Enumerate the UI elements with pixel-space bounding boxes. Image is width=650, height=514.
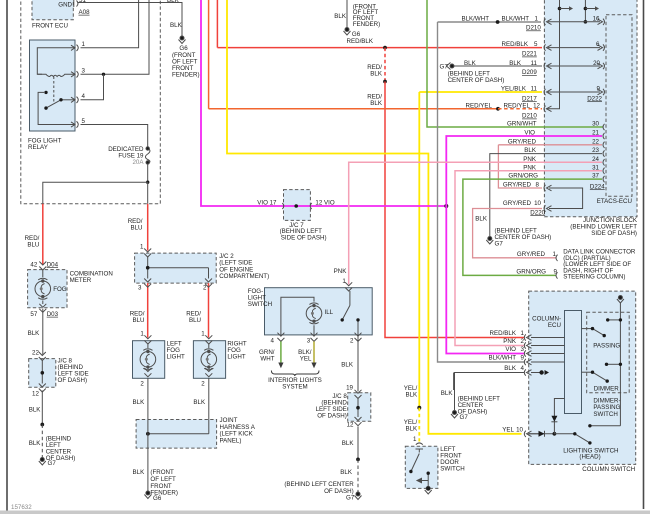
- svg-text:19: 19: [346, 385, 353, 392]
- svg-text:LIGHT: LIGHT: [167, 353, 185, 360]
- svg-text:5: 5: [82, 118, 86, 125]
- svg-text:BLU: BLU: [130, 225, 142, 232]
- svg-text:COLUMN SWITCH: COLUMN SWITCH: [582, 466, 635, 473]
- svg-text:G6: G6: [179, 45, 188, 52]
- wire GRY/RED pin 22 row: [498, 144, 602, 146]
- wire BLK column ECU pin 4 to ground G7 door area: [455, 373, 525, 412]
- outer dashed box front ECU / fog light relay compartment: [21, 0, 161, 204]
- svg-text:G6: G6: [153, 495, 162, 502]
- node J/C8 left dot: [41, 371, 45, 375]
- node riser 2 top: [584, 7, 588, 11]
- J/C2 pin 2 arrow: [205, 279, 212, 288]
- svg-text:G7: G7: [346, 495, 355, 502]
- node VIO junction: [444, 204, 448, 208]
- node splice RED/BLK: [383, 46, 387, 50]
- combination meter box: [28, 270, 67, 308]
- pin bracket front ECU GND pin 51: [74, 0, 78, 7]
- svg-text:4: 4: [521, 365, 525, 372]
- svg-text:GRY/RED: GRY/RED: [503, 182, 532, 189]
- wire BLK left fog light pin 2: [147, 378, 149, 419]
- fog switch internals: ILL lamp: [306, 303, 322, 324]
- svg-text:42: 42: [30, 261, 37, 268]
- svg-text:WHT: WHT: [260, 355, 274, 362]
- wire BLK drop beside door switch from top: [453, 373, 455, 391]
- J/C2 pin 1 arrow: [144, 249, 151, 258]
- joint harness A (left kick panel) box: [136, 420, 217, 449]
- svg-text:20: 20: [593, 60, 600, 67]
- svg-text:D220: D220: [530, 209, 545, 216]
- wire BLK G7 row to junction pin 11: [454, 65, 542, 67]
- svg-text:16: 16: [593, 15, 600, 22]
- svg-text:1: 1: [140, 243, 144, 250]
- svg-text:22: 22: [592, 138, 599, 145]
- ground under left front door switch: [425, 486, 432, 494]
- svg-text:BLK: BLK: [504, 365, 517, 372]
- wire RED/YEL vertical from top: [208, 0, 210, 109]
- node splice BLK/WHT: [496, 20, 500, 24]
- wire dimmer switch feed: [582, 371, 593, 373]
- wire PNK pin 24 to fog switch pin 1: [349, 162, 602, 284]
- passing switch contacts: [593, 329, 605, 336]
- fog-light switch box: [265, 288, 373, 335]
- wire YEL/BLK vertical: [418, 92, 420, 408]
- svg-text:2: 2: [140, 380, 144, 387]
- wire GRN/ORG pin 37 to DLC pin 9: [463, 179, 602, 275]
- wire YEL/BLK junction pin 11 row: [419, 91, 542, 93]
- ground G6 front of left front fender top-left: [179, 36, 186, 44]
- fuse 19 symbol: [145, 147, 150, 164]
- wire PNK pin 31 to column ECU pin 2: [455, 171, 602, 346]
- wire dark segment to J/C2: [147, 182, 149, 204]
- svg-text:BLK: BLK: [29, 440, 42, 447]
- svg-text:22: 22: [32, 349, 39, 356]
- wire YEL vertical from top: [227, 0, 522, 434]
- J/C 2 box (left side of engine compartment): [135, 253, 217, 283]
- svg-text:SIDE OF DASH): SIDE OF DASH): [281, 234, 327, 241]
- svg-text:ECU: ECU: [548, 322, 561, 329]
- svg-text:12: 12: [32, 391, 39, 398]
- svg-text:OF DASH): OF DASH): [317, 412, 347, 419]
- wire junction block internal riser 1: [546, 0, 560, 109]
- wire riser 2 top arrow: [585, 8, 596, 10]
- J/C2 internals: [148, 257, 209, 279]
- svg-text:GRN/ORG: GRN/ORG: [516, 269, 546, 276]
- wire GRY/RED drop 22 to 8: [498, 145, 542, 188]
- wire VIO riser to junction block pin 21: [446, 136, 602, 207]
- wire lighting switch contact row: [590, 425, 621, 427]
- svg-text:SWITCH: SWITCH: [248, 301, 272, 308]
- svg-text:1: 1: [82, 41, 86, 48]
- svg-text:PNK: PNK: [503, 338, 517, 345]
- wire relay pin 5 to dedicated fuse 19: [81, 125, 148, 149]
- wire BLK/WHT row to junction pin 1: [438, 21, 542, 23]
- svg-text:BLK/WHT: BLK/WHT: [461, 15, 489, 22]
- wire RED/BLK dashed drop: [384, 48, 386, 82]
- wire BLK fog switch pin 2 to J/C8 pin 19: [357, 335, 359, 392]
- svg-text:PASSING: PASSING: [593, 343, 620, 350]
- wire RED/YEL row to splice: [209, 108, 498, 110]
- svg-text:FENDER): FENDER): [172, 72, 200, 79]
- svg-text:G7: G7: [48, 460, 57, 467]
- DLC pin brackets: [556, 255, 558, 279]
- svg-text:9: 9: [597, 86, 601, 93]
- svg-text:PANEL): PANEL): [220, 437, 242, 444]
- wire BLK front ECU GND pin 51 to ground G6: [78, 3, 182, 37]
- svg-text:51: 51: [79, 0, 86, 4]
- wire BLK/WHT drop to column ECU pin 9: [438, 22, 525, 362]
- wire YEL/BLK dashed to door switch pin 1: [418, 408, 420, 442]
- node lighting switch splice: [553, 432, 557, 436]
- junction block left edge pin brackets with arrows: [544, 19, 552, 212]
- wire column ECU pin rows to ECU: [531, 337, 565, 339]
- svg-text:1: 1: [201, 330, 205, 337]
- svg-text:BLK: BLK: [133, 469, 146, 476]
- front ECU box: [32, 0, 73, 20]
- svg-text:GRN/WHT: GRN/WHT: [507, 121, 537, 128]
- svg-text:1: 1: [535, 15, 539, 22]
- node splice center BLK: [356, 458, 360, 462]
- svg-text:ETACS-ECU: ETACS-ECU: [597, 198, 632, 205]
- svg-text:2: 2: [350, 337, 354, 344]
- diode vertical in lighting switch: [551, 416, 557, 422]
- left fog light box: [133, 341, 165, 379]
- wire RED/BLU to combination meter pin 42: [42, 204, 44, 265]
- svg-text:GRY/RED: GRY/RED: [503, 200, 532, 207]
- ground G7 behind left center of dash (junction area): [486, 237, 493, 245]
- svg-text:BLU: BLU: [189, 317, 201, 324]
- fog switch bottom pin arrows 4 3 2: [277, 333, 361, 342]
- svg-text:BLK: BLK: [193, 399, 206, 406]
- column switch pin brackets: [524, 334, 531, 437]
- svg-text:BLK: BLK: [405, 426, 418, 433]
- svg-text:D04: D04: [47, 261, 59, 268]
- svg-text:4: 4: [82, 93, 86, 100]
- svg-text:30: 30: [592, 121, 599, 128]
- wire lighting switch riser with diode: [554, 399, 564, 434]
- svg-text:8: 8: [536, 182, 540, 189]
- node pin3/pin4 junction: [102, 73, 105, 76]
- svg-text:G7: G7: [460, 414, 469, 421]
- svg-text:RED/BLK: RED/BLK: [347, 38, 374, 45]
- svg-text:BLK: BLK: [340, 469, 353, 476]
- wire GRY/RED pin 10 to DLC pin 1: [473, 209, 556, 258]
- wire GRN/WHT from top to junction pin 30: [427, 0, 603, 127]
- pin 57 arrow out of combination meter: [39, 304, 46, 313]
- wire junction row pin1 to 16: [548, 21, 600, 23]
- wire relay pin 4: [81, 74, 104, 100]
- svg-text:4: 4: [271, 337, 275, 344]
- svg-text:12: 12: [347, 422, 354, 429]
- wire RED/BLU to J/C 2 pin 1: [147, 204, 149, 251]
- svg-text:BLK: BLK: [334, 13, 347, 20]
- svg-text:DIMMER: DIMMER: [594, 386, 620, 393]
- svg-text:G6: G6: [352, 31, 361, 38]
- wire RED/BLK row to junction block pin 5: [217, 47, 542, 49]
- fuse F19 below: [147, 162, 149, 182]
- svg-text:BLK: BLK: [133, 399, 146, 406]
- wire YEL10 internal from bracket to splice: [529, 433, 554, 435]
- wire junction row pin5 to 6: [548, 47, 600, 49]
- ground G6 bottom fog light: [144, 491, 151, 499]
- svg-text:9: 9: [521, 355, 525, 362]
- fog switch pin 1 arrow: [345, 282, 352, 291]
- svg-text:FRONT ECU: FRONT ECU: [32, 22, 68, 29]
- svg-text:(HEAD): (HEAD): [579, 454, 600, 461]
- svg-text:RED/YEL: RED/YEL: [466, 102, 493, 109]
- BLK/YEL stub to interior lights: [313, 341, 315, 362]
- column-ECU box: [565, 311, 582, 414]
- svg-text:SWITCH: SWITCH: [440, 466, 464, 473]
- svg-text:ILL: ILL: [325, 309, 334, 316]
- left front door switch box: [405, 446, 438, 488]
- wire RED/BLU J/C2 pin 2 to right fog light: [208, 283, 210, 337]
- svg-text:D210: D210: [522, 113, 537, 120]
- column switch box: [529, 291, 636, 464]
- svg-text:GRY/RED: GRY/RED: [508, 138, 537, 145]
- svg-text:LIGHT: LIGHT: [227, 353, 245, 360]
- svg-text:GRY/RED: GRY/RED: [517, 251, 546, 258]
- svg-text:BLK: BLK: [464, 60, 477, 67]
- node splice: [40, 423, 44, 427]
- svg-text:1: 1: [553, 251, 557, 258]
- svg-text:CENTER OF DASH): CENTER OF DASH): [448, 77, 505, 84]
- svg-text:BLK/WHT: BLK/WHT: [501, 15, 529, 22]
- svg-text:VIO: VIO: [505, 346, 516, 353]
- svg-text:D03: D03: [47, 311, 59, 318]
- door switch pin 1 bracket: [416, 443, 423, 445]
- ground G7 sideways at BLK 11 row: [447, 63, 455, 70]
- wire junction block internal riser 2: [584, 0, 586, 22]
- wire BLK pin 23 to ground G7: [490, 154, 602, 237]
- svg-text:RELAY: RELAY: [28, 144, 48, 151]
- svg-text:CENTER OF DASH): CENTER OF DASH): [495, 234, 552, 241]
- svg-text:12 VIO: 12 VIO: [315, 200, 334, 207]
- wire relay pin 1: [81, 0, 139, 48]
- svg-text:BLU: BLU: [132, 317, 144, 324]
- node fuse output junction: [146, 181, 149, 184]
- brace interior lights system: [271, 371, 319, 377]
- J/C7 brackets and dot: [282, 203, 311, 209]
- svg-text:6: 6: [596, 41, 600, 48]
- node splice RED/YEL: [496, 107, 500, 111]
- combination meter fog lamp: [35, 278, 51, 299]
- svg-text:3: 3: [82, 68, 86, 75]
- svg-text:FENDER): FENDER): [353, 21, 381, 28]
- svg-text:2: 2: [201, 380, 205, 387]
- svg-text:VIO: VIO: [524, 130, 535, 137]
- wire RED/YEL dashed to junction block pin 12: [498, 108, 542, 110]
- wire BLK J/C8 pin 12 down: [357, 427, 359, 460]
- wire J/C8 pin 12 BLK down: [41, 391, 43, 425]
- ETACS-ECU: [606, 15, 632, 197]
- svg-text:2: 2: [521, 338, 525, 345]
- J/C 8 box (behind left side of dash, left): [29, 359, 56, 388]
- svg-text:GND: GND: [58, 1, 72, 8]
- wire to combination meter branch: [43, 182, 148, 204]
- svg-text:24: 24: [592, 156, 599, 163]
- svg-text:BLK: BLK: [405, 392, 418, 399]
- BLK 4 arrow chevron: [545, 370, 550, 375]
- wire junction pins 8-10 U link: [549, 188, 583, 209]
- pin 1 relay bracket: [71, 45, 78, 51]
- wire dimmer fixed contact to ground rail: [607, 363, 621, 365]
- svg-text:SWITCH: SWITCH: [593, 411, 617, 418]
- wire BLK right fog light pin 2: [208, 378, 210, 434]
- wire ground rail in column switch: [619, 303, 621, 426]
- wire BLK dashed to center ground G7: [357, 459, 359, 492]
- door switch internals: [411, 449, 428, 488]
- svg-text:BLK: BLK: [524, 147, 537, 154]
- pin 3 relay bracket: [71, 71, 78, 77]
- svg-text:BLK: BLK: [170, 22, 183, 29]
- svg-text:G7: G7: [440, 63, 449, 70]
- GRN/WHT stub to interior lights: [280, 341, 282, 362]
- wire RED/BLK down to column ECU pin 1: [385, 82, 524, 338]
- ETACS edge brackets colored rows: [603, 124, 605, 183]
- ground G6 front of left front fender second top: [344, 28, 351, 36]
- svg-text:12: 12: [533, 102, 540, 109]
- svg-text:PNK: PNK: [334, 268, 348, 275]
- svg-text:RED/BLK: RED/BLK: [490, 330, 517, 337]
- svg-text:11: 11: [531, 86, 538, 93]
- wire RED/BLK vertical from top: [216, 0, 218, 48]
- wire lighting switch to movable contact: [554, 433, 574, 435]
- svg-text:FOG: FOG: [53, 286, 67, 293]
- svg-text:3: 3: [307, 337, 311, 344]
- svg-text:BLK: BLK: [29, 407, 42, 414]
- svg-text:1: 1: [342, 278, 346, 285]
- svg-text:BLK: BLK: [342, 440, 355, 447]
- svg-text:10: 10: [516, 426, 523, 433]
- svg-text:YEL: YEL: [502, 426, 514, 433]
- svg-text:METER: METER: [70, 277, 92, 284]
- pin 4 relay bracket: [71, 97, 78, 103]
- J/C8 left arrows: [39, 352, 46, 392]
- svg-text:VIO 17: VIO 17: [257, 200, 277, 207]
- diode at YEL 10: [539, 431, 545, 437]
- svg-text:10: 10: [534, 200, 541, 207]
- svg-text:YEL: YEL: [300, 355, 312, 362]
- ground G7 center lower: [355, 492, 362, 500]
- left fog light pin 1 arrow and bulb: [144, 335, 151, 377]
- node riser 2 joins row 1-16: [584, 20, 588, 24]
- svg-text:BLK: BLK: [28, 330, 41, 337]
- svg-text:D222: D222: [587, 95, 602, 102]
- fog switch contacts: [342, 291, 358, 335]
- node riser 1 top: [558, 7, 562, 11]
- svg-text:PNK: PNK: [523, 156, 537, 163]
- dimmer switch contacts: [593, 372, 608, 381]
- wire BLK combination meter pin 57 to pin 22: [42, 309, 44, 356]
- relay coil and contacts: [37, 48, 75, 125]
- svg-text:9: 9: [554, 269, 558, 276]
- svg-text:BLK: BLK: [441, 390, 454, 397]
- svg-text:5: 5: [534, 41, 538, 48]
- svg-text:RED/BLK: RED/BLK: [502, 41, 529, 48]
- svg-text:BLK: BLK: [475, 216, 488, 223]
- pin 42 arrow into combination meter: [39, 262, 46, 271]
- J/C2 pin 3 arrow: [144, 279, 151, 288]
- node splice YEL/BLK: [417, 406, 421, 410]
- node BLK 4 dot: [539, 370, 543, 374]
- svg-text:D224: D224: [590, 183, 605, 190]
- wire joint harness internal: [148, 433, 209, 435]
- svg-text:3: 3: [138, 284, 142, 291]
- node joint harness junction: [146, 432, 150, 436]
- svg-text:PNK: PNK: [523, 164, 537, 171]
- svg-text:BLK: BLK: [341, 361, 354, 368]
- junction block (behind lower left side of dash): [544, 0, 637, 217]
- J/C8 center arrows and dot: [355, 390, 362, 426]
- svg-text:COMPARTMENT): COMPARTMENT): [219, 273, 269, 280]
- pin 5 relay bracket: [71, 121, 78, 127]
- svg-text:1: 1: [413, 436, 417, 443]
- dimmer-passing switch box: [587, 312, 630, 393]
- svg-text:YEL/BLK: YEL/BLK: [501, 86, 527, 93]
- wire BLK joint harness to ground G6 bottom: [147, 420, 149, 492]
- svg-text:BLK: BLK: [370, 100, 383, 107]
- svg-text:3: 3: [521, 346, 525, 353]
- J/C 8 box (behind left center of dash, center): [348, 393, 371, 422]
- ground G7 left lower: [39, 458, 46, 466]
- wire junction row pin11 to 20: [548, 65, 600, 67]
- svg-text:1: 1: [140, 330, 144, 337]
- svg-text:OF DASH): OF DASH): [58, 377, 88, 384]
- svg-text:2: 2: [203, 284, 207, 291]
- ground G7 behind left center of dash column area: [451, 411, 458, 419]
- svg-text:BLK: BLK: [509, 60, 522, 67]
- svg-text:D210: D210: [526, 25, 541, 32]
- svg-text:BLK: BLK: [370, 71, 383, 78]
- svg-text:1: 1: [521, 330, 525, 337]
- svg-text:21: 21: [592, 130, 599, 137]
- svg-text:11: 11: [531, 60, 538, 67]
- svg-text:20A: 20A: [132, 159, 144, 166]
- svg-text:23: 23: [592, 147, 599, 154]
- svg-text:D209: D209: [522, 69, 537, 76]
- svg-text:G7: G7: [495, 240, 504, 247]
- wire passing fixed contact to ground rail: [608, 319, 621, 321]
- ground in column switch top: [617, 296, 624, 304]
- svg-text:A08: A08: [79, 9, 91, 16]
- lighting switch contacts: [575, 434, 590, 443]
- wire VIO drop to column ECU pin 3: [446, 206, 524, 354]
- svg-text:BLU: BLU: [27, 242, 39, 249]
- right fog light box: [193, 341, 225, 379]
- ETACS edge arrows rows 16 6 20 9: [598, 19, 605, 96]
- wire riser 1 top arrow: [560, 8, 571, 10]
- wire RED/BLU J/C2 pin 3 to left fog light: [147, 283, 149, 337]
- wire passing switch feed: [582, 328, 593, 330]
- svg-text:37: 37: [592, 173, 599, 180]
- svg-text:GRN/ORG: GRN/ORG: [508, 173, 538, 180]
- svg-text:157632: 157632: [11, 504, 32, 511]
- svg-text:BLK/WHT: BLK/WHT: [488, 355, 516, 362]
- wire relay pin 3: [81, 0, 150, 74]
- wire BLK dashed to ground G7 left: [41, 425, 43, 458]
- svg-text:SYSTEM: SYSTEM: [282, 383, 307, 390]
- wire BLK second G6 drop at top: [346, 0, 348, 28]
- J/C 7 box (behind left side of dash): [284, 190, 311, 221]
- svg-text:31: 31: [592, 164, 599, 171]
- svg-text:SIDE OF DASH): SIDE OF DASH): [591, 230, 637, 237]
- right fog light pin 1 arrow and bulb: [205, 335, 212, 377]
- svg-text:STEERING COLUMN): STEERING COLUMN): [563, 274, 625, 281]
- node splice RED/BLK 2: [383, 80, 387, 84]
- fog light relay box: [30, 40, 76, 131]
- svg-text:RED/YEL: RED/YEL: [504, 102, 531, 109]
- wire VIO vertical from top: [201, 0, 445, 206]
